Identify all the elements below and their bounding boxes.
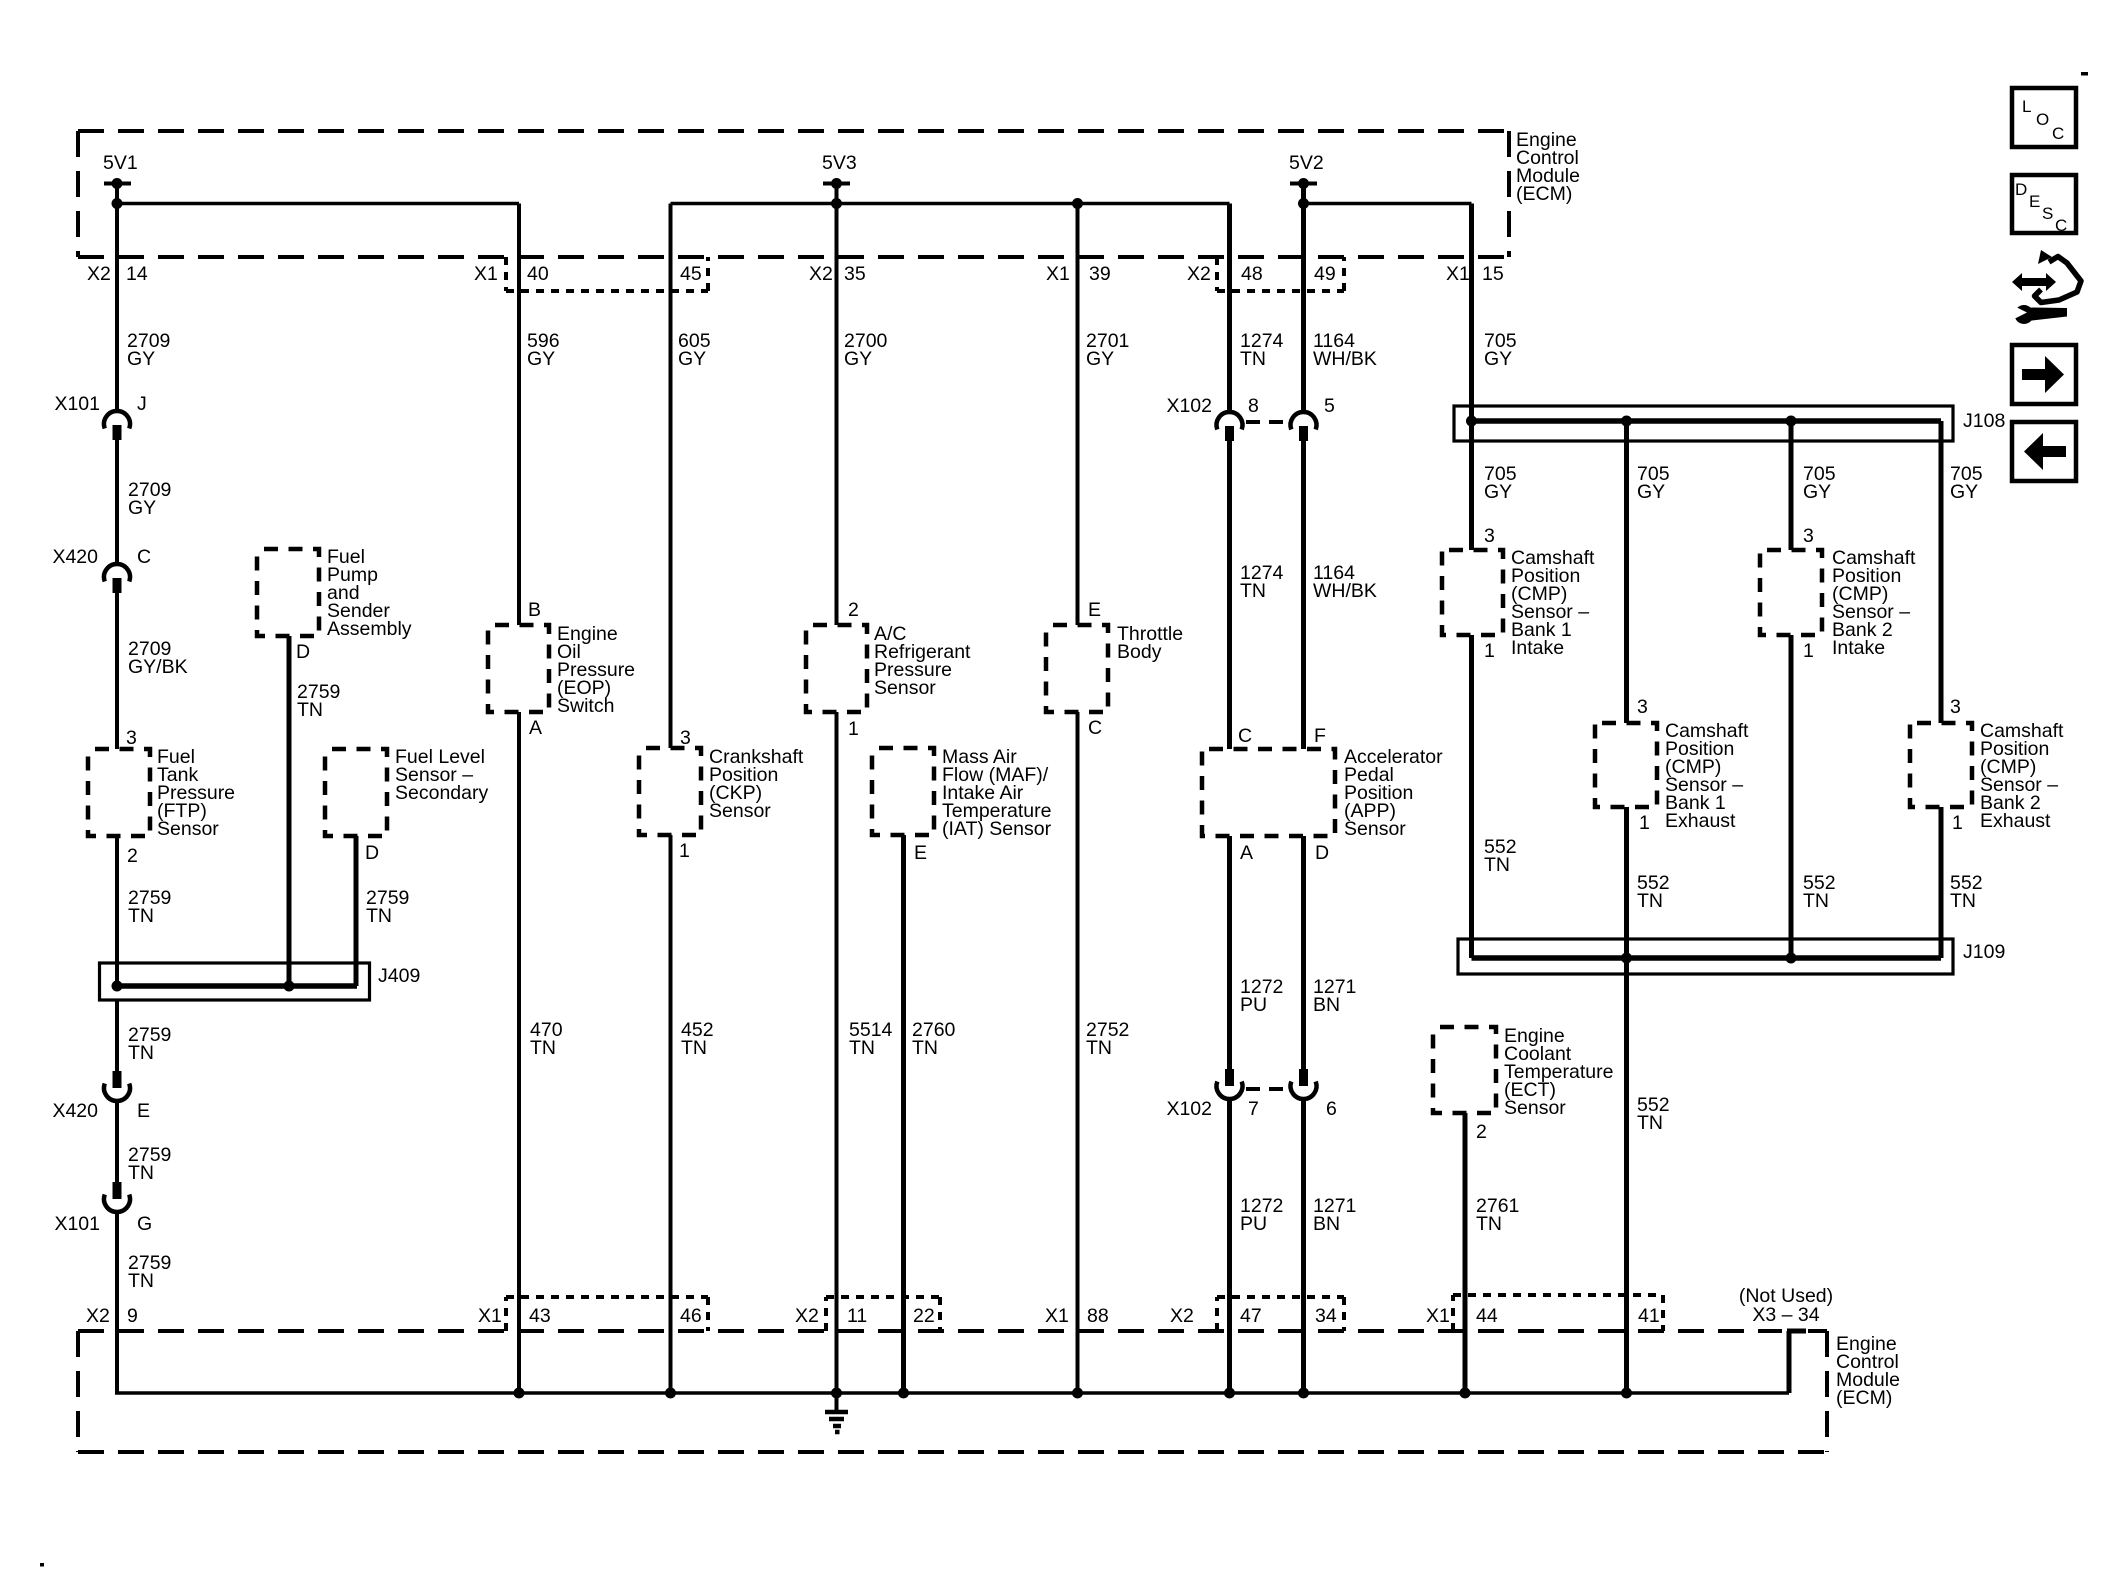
svg-text:J409: J409 [378, 965, 420, 987]
svg-text:705GY: 705GY [1637, 463, 1670, 503]
svg-text:X2: X2 [795, 1305, 819, 1327]
terminal X2 35 [809, 263, 866, 285]
svg-text:X102: X102 [1166, 1098, 1212, 1120]
component Camshaft Position (CMP) Sensor Bank 2 Exhaust [1910, 720, 2064, 832]
wire 552 TN from CMP B1 exhaust pin 1 to J109 [1627, 807, 1670, 958]
wire stub to terminal X3-34 [1787, 1331, 1806, 1393]
terminal X2 14 [87, 263, 148, 285]
connector X101 pin G inline [54, 1182, 152, 1235]
svg-text:2: 2 [127, 845, 138, 867]
svg-text:X2: X2 [86, 1305, 110, 1327]
component Crankshaft Position (CKP) Sensor [639, 746, 804, 835]
svg-text:705GY: 705GY [1484, 330, 1517, 370]
svg-text:X2: X2 [87, 263, 111, 285]
wire ground bus return inside ECM [115, 1213, 1789, 1399]
component Accelerator Pedal Position (APP) Sensor [1202, 746, 1443, 840]
svg-text:1: 1 [1639, 812, 1650, 834]
svg-text:1: 1 [1952, 812, 1963, 834]
svg-text:14: 14 [126, 263, 148, 285]
svg-text:G: G [137, 1213, 152, 1235]
wire 1272 PU from X102-7 to terminal 47 [1230, 1100, 1284, 1393]
terminal X2 48 and 49 dotted connector group [1187, 257, 1344, 291]
splice junction J108 [1454, 406, 2005, 441]
svg-text:596GY: 596GY [527, 330, 560, 370]
wire 2700 GY from terminal 35 to A/C sensor pin 2 [837, 184, 888, 626]
component Camshaft Position (CMP) Sensor Bank 2 Intake [1760, 547, 1916, 659]
svg-text:EngineControlModule(ECM): EngineControlModule(ECM) [1516, 129, 1580, 205]
wire 1271 BN from X102-6 to terminal 34 [1304, 1100, 1357, 1393]
wire 1164 WH/BK from X102-5 to APP pin F [1304, 441, 1377, 749]
svg-text:40: 40 [527, 263, 549, 285]
wire 1272 PU from APP pin A to X102 pin 7 [1230, 836, 1284, 1069]
svg-text:X1: X1 [1045, 1305, 1069, 1327]
component Camshaft Position (CMP) Sensor Bank 1 Intake [1442, 547, 1595, 659]
ECM module dashed box (bottom) [78, 1331, 1827, 1452]
svg-text:X1: X1 [1046, 263, 1070, 285]
terminal X2 47 and 34 dotted connector group [1170, 1297, 1344, 1331]
wire 2761 TN from ECT pin 2 to terminal 44 [1465, 1113, 1519, 1393]
wire 705 GY from J108 to CMP bank1 intake pin 3 [1472, 421, 1517, 550]
connector X420 pin E inline [52, 1071, 150, 1122]
terminal X1 88 [1045, 1305, 1109, 1327]
svg-text:F: F [1314, 725, 1326, 747]
wire 470 TN from EOP pin A to terminal 43 [519, 712, 563, 1393]
connector X102 pins 8 and 5 inline [1166, 395, 1335, 441]
wire 2709 GY from 5V1 to X101 J [117, 184, 170, 410]
icon forward arrow button [2012, 345, 2076, 404]
wire 2759 TN from X101 G to terminal X2 9 [117, 1213, 171, 1393]
wire 2701 GY from terminal 39 to throttle body pin E [1078, 204, 1130, 626]
wire 705 GY from J108 to CMP bank1 exhaust pin 3 [1627, 421, 1670, 723]
svg-text:605GY: 605GY [678, 330, 711, 370]
svg-text:15: 15 [1482, 263, 1504, 285]
svg-text:1: 1 [679, 840, 690, 862]
wire 452 TN from CKP pin 1 to terminal 46 [671, 835, 714, 1393]
svg-text:34: 34 [1315, 1305, 1337, 1327]
wire 1274 TN from terminal 48 to X102 pin 8 [1230, 204, 1284, 411]
svg-text:6: 6 [1326, 1098, 1337, 1120]
wire 5V2 bus horizontal to terminal 15 [1298, 198, 1472, 209]
terminal X1 44 and 41 dotted connector group [1426, 1295, 1663, 1331]
svg-text:22: 22 [913, 1305, 935, 1327]
svg-text:C: C [137, 546, 151, 568]
svg-text:D: D [365, 842, 379, 864]
svg-text:5: 5 [1324, 395, 1335, 417]
svg-text:45: 45 [680, 263, 702, 285]
svg-text:X102: X102 [1166, 395, 1212, 417]
wire 1271 BN from APP pin D to X102 pin 6 [1304, 836, 1357, 1069]
icon back arrow button [2012, 422, 2076, 481]
svg-text:1: 1 [1484, 640, 1495, 662]
wire 596 GY from terminal 40 to EOP switch pin B [519, 204, 560, 626]
ground symbol G103 [825, 1393, 848, 1432]
terminal X1 40 and 45 dotted connector group [474, 257, 708, 291]
component A/C Refrigerant Pressure Sensor [806, 623, 971, 712]
wire 2752 TN from throttle pin C to terminal 88 [1078, 712, 1130, 1393]
wire 2760 TN from MAF pin E to terminal 22 [904, 835, 956, 1393]
svg-text:3: 3 [680, 727, 691, 749]
svg-text:3: 3 [1803, 525, 1814, 547]
svg-text:11: 11 [847, 1305, 867, 1327]
label Engine Control Module (ECM) bottom right [1836, 1333, 1900, 1409]
terminal X1 43 and 46 dotted connector group [478, 1297, 708, 1331]
svg-text:3: 3 [126, 727, 137, 749]
wire 2709 GY from X101 to X420 C [117, 440, 171, 562]
svg-text:A: A [529, 717, 542, 739]
svg-text:C: C [1238, 725, 1252, 747]
wire 2759 TN from X420 E to X101 G [117, 1102, 171, 1184]
svg-text:5V1: 5V1 [103, 152, 138, 174]
svg-text:X1: X1 [478, 1305, 502, 1327]
wire 2709 GY/BK to FTP sensor pin 3 [117, 593, 188, 749]
splice junction J109 [1458, 939, 2005, 974]
svg-text:X101: X101 [54, 393, 100, 415]
wire 2759 TN from FTP pin 2 to J409 [117, 836, 171, 986]
wire 1274 TN from X102-8 to APP pin C [1230, 441, 1284, 749]
svg-text:1: 1 [848, 718, 859, 740]
terminal X1 15 [1446, 263, 1504, 285]
svg-text:X3 – 34: X3 – 34 [1752, 1304, 1819, 1326]
icon connector-view double arrow with wrench [2012, 250, 2081, 324]
splice junction J409 [100, 963, 421, 1000]
component Fuel Tank Pressure (FTP) Sensor [88, 746, 235, 840]
svg-text:48: 48 [1241, 263, 1263, 285]
wire 705 GY from J108 to CMP bank2 exhaust pin 3 [1941, 421, 1983, 723]
svg-text:3: 3 [1484, 525, 1495, 547]
svg-text:C: C [1088, 717, 1102, 739]
svg-text:35: 35 [844, 263, 866, 285]
svg-text:O: O [2036, 110, 2049, 129]
wire 552 TN from CMP B1 intake pin 1 to J109 [1472, 635, 1517, 958]
svg-text:X1: X1 [1446, 263, 1470, 285]
svg-text:C: C [2055, 216, 2067, 235]
svg-text:E: E [137, 1100, 150, 1122]
5V3 voltage terminal [822, 152, 857, 189]
terminal X3-34 not used [1739, 1285, 1833, 1326]
svg-text:E: E [914, 842, 927, 864]
svg-text:J: J [137, 393, 147, 415]
svg-text:D: D [1315, 842, 1329, 864]
connector X102 pins 7 and 6 inline [1166, 1069, 1336, 1120]
svg-text:X1: X1 [1426, 1305, 1450, 1327]
wire 552 TN from CMP B2 intake pin 1 to J109 [1791, 635, 1836, 958]
svg-text:44: 44 [1476, 1305, 1498, 1327]
svg-text:5V2: 5V2 [1289, 152, 1324, 174]
5V1 voltage terminal [103, 152, 138, 189]
component Mass Air Flow (MAF)/Intake Air Temperature (IAT) Sensor [872, 746, 1052, 840]
wire 705 GY from terminal X1 15 to J108 [1472, 204, 1517, 422]
svg-text:5V3: 5V3 [822, 152, 857, 174]
icon DESC button [2012, 175, 2076, 235]
wire 2759 TN from Fuel Pump pin D to J409 [289, 636, 340, 986]
component Camshaft Position (CMP) Sensor Bank 1 Exhaust [1595, 720, 1749, 832]
svg-text:88: 88 [1087, 1305, 1109, 1327]
stray mark bottom left [40, 1563, 44, 1567]
svg-text:J109: J109 [1963, 941, 2005, 963]
svg-text:X2: X2 [1187, 263, 1211, 285]
svg-text:46: 46 [680, 1305, 702, 1327]
wire 5V1 bus horizontal to terminal 40 [112, 198, 520, 209]
svg-text:X2: X2 [1170, 1305, 1194, 1327]
stray mark top right [2081, 72, 2088, 76]
component Fuel Pump and Sender Assembly [257, 546, 412, 640]
ECM module dashed box (top) [78, 131, 1509, 257]
label Engine Control Module (ECM) top right [1516, 129, 1580, 205]
component Fuel Level Sensor - Secondary [325, 746, 488, 836]
connector X420 pin C inline [52, 546, 151, 593]
wire 5V3 bus horizontal from terminal 45 to terminal 48 [671, 198, 1230, 209]
terminal X2 9 [86, 1305, 138, 1327]
terminal X2 11 and 22 dotted connector group [795, 1297, 940, 1331]
wire 552 TN from J109 to terminal 41 [1627, 958, 1670, 1393]
svg-text:1: 1 [1803, 640, 1814, 662]
svg-text:J108: J108 [1963, 410, 2005, 432]
svg-text:705GY: 705GY [1950, 463, 1983, 503]
wire 5514 TN from A/C pin 1 to terminal 11 [837, 712, 893, 1393]
svg-text:X420: X420 [52, 546, 98, 568]
svg-text:49: 49 [1314, 263, 1336, 285]
wire 1164 WH/BK from terminal 49 to X102 pin 5 [1304, 184, 1377, 411]
wire 552 TN from CMP B2 exhaust pin 1 to J109 [1941, 807, 1983, 958]
wire 605 GY from terminal 45 to CKP sensor pin 3 [671, 204, 711, 750]
svg-text:705GY: 705GY [1803, 463, 1836, 503]
5V2 voltage terminal [1289, 152, 1324, 189]
svg-text:L: L [2022, 97, 2031, 116]
svg-text:B: B [528, 599, 541, 621]
svg-text:8: 8 [1248, 395, 1259, 417]
wire 2759 TN from Fuel Level pin D to J409 [356, 836, 409, 986]
svg-text:S: S [2042, 204, 2053, 223]
terminal X1 39 [1046, 263, 1111, 285]
component Engine Coolant Temperature (ECT) Sensor [1433, 1025, 1613, 1119]
svg-text:47: 47 [1240, 1305, 1262, 1327]
svg-text:X2: X2 [809, 263, 833, 285]
svg-text:7: 7 [1248, 1098, 1259, 1120]
svg-text:D: D [2015, 180, 2027, 199]
svg-text:E: E [2029, 192, 2040, 211]
svg-text:D: D [296, 641, 310, 663]
icon LOC button [2012, 88, 2076, 147]
svg-text:39: 39 [1089, 263, 1111, 285]
svg-text:2: 2 [1476, 1121, 1487, 1143]
svg-text:9: 9 [127, 1305, 138, 1327]
svg-text:X101: X101 [54, 1213, 100, 1235]
wire 705 GY from J108 to CMP bank2 intake pin 3 [1791, 421, 1836, 550]
svg-text:3: 3 [1637, 696, 1648, 718]
svg-text:41: 41 [1638, 1305, 1660, 1327]
svg-text:705GY: 705GY [1484, 463, 1517, 503]
svg-text:2: 2 [848, 599, 859, 621]
svg-text:C: C [2052, 124, 2064, 143]
connector X101 pin J inline [54, 393, 146, 440]
svg-text:X1: X1 [474, 263, 498, 285]
svg-text:3: 3 [1950, 696, 1961, 718]
svg-text:43: 43 [529, 1305, 551, 1327]
svg-text:A: A [1240, 842, 1253, 864]
wire 2759 TN from J409 to X420 E [117, 1000, 171, 1071]
svg-text:E: E [1088, 599, 1101, 621]
svg-text:X420: X420 [52, 1100, 98, 1122]
svg-text:EngineControlModule(ECM): EngineControlModule(ECM) [1836, 1333, 1900, 1409]
component Engine Oil Pressure (EOP) Switch [488, 623, 635, 717]
component Throttle Body [1046, 623, 1183, 712]
